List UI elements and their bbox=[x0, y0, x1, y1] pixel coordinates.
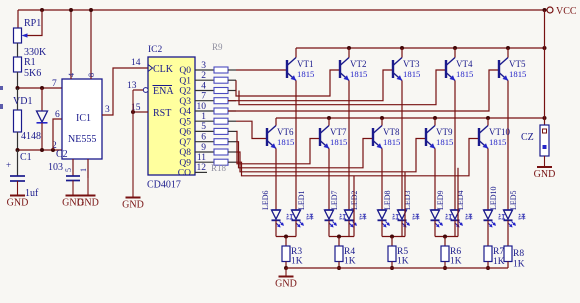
svg-text:CLK: CLK bbox=[153, 64, 174, 75]
wire pin 8 bbox=[90, 10, 92, 79]
svg-text:1815: 1815 bbox=[456, 69, 473, 79]
ground LED bus bbox=[285, 268, 287, 277]
svg-text:VD1: VD1 bbox=[13, 96, 32, 107]
IC U2 CD4017 bbox=[148, 57, 195, 175]
LED LED2 green bbox=[345, 209, 354, 211]
svg-text:LED3: LED3 bbox=[403, 190, 412, 210]
wire collector rail VT1-VT5 bbox=[296, 47, 545, 49]
svg-text:RP1: RP1 bbox=[24, 18, 41, 29]
node A wire to pin 7 bbox=[18, 87, 63, 89]
wire RP1 top connection bbox=[17, 10, 19, 28]
resistor R16 bbox=[214, 139, 228, 145]
svg-text:CZ: CZ bbox=[521, 132, 534, 143]
wire Q0 to VT1 base bbox=[236, 69, 287, 71]
svg-text:GND: GND bbox=[77, 198, 99, 209]
LED LED6 red bbox=[272, 209, 281, 211]
svg-text:ENA: ENA bbox=[153, 86, 174, 97]
svg-text:CD4017: CD4017 bbox=[147, 180, 181, 191]
svg-text:VCC: VCC bbox=[556, 6, 577, 17]
svg-text:7: 7 bbox=[52, 79, 57, 89]
wire LED5 cathode to R8 bbox=[507, 221, 509, 247]
svg-text:GND: GND bbox=[7, 198, 29, 209]
svg-text:CO: CO bbox=[178, 169, 191, 179]
svg-text:IC2: IC2 bbox=[148, 45, 163, 55]
wire Q6 to VT7 base bbox=[236, 131, 320, 163]
svg-text:Q1: Q1 bbox=[179, 76, 191, 86]
wire R5 to ground bus bbox=[391, 262, 393, 269]
svg-text:1815: 1815 bbox=[436, 137, 453, 147]
LED LED3 green bbox=[398, 209, 407, 211]
wire pin 6 bbox=[53, 119, 62, 150]
svg-text:VT4: VT4 bbox=[456, 59, 473, 69]
svg-text:1815: 1815 bbox=[509, 69, 526, 79]
svg-text:1815: 1815 bbox=[297, 69, 314, 79]
svg-text:10: 10 bbox=[197, 102, 207, 112]
svg-text:1815: 1815 bbox=[277, 137, 294, 147]
resistor R14 bbox=[214, 118, 228, 124]
svg-text:VT8: VT8 bbox=[383, 127, 400, 137]
wire pair 4 riser bbox=[457, 168, 459, 237]
wire LED pair 1 cathodes bbox=[275, 221, 277, 237]
transistor VT1 bbox=[286, 60, 288, 78]
svg-text:1K: 1K bbox=[397, 257, 409, 267]
transistor VT10 bbox=[478, 128, 480, 146]
svg-text:Q2: Q2 bbox=[179, 87, 191, 97]
svg-text:R7: R7 bbox=[493, 247, 504, 257]
wire VT4 emitter to LED4 bbox=[454, 81, 456, 211]
svg-text:1K: 1K bbox=[291, 257, 303, 267]
transistor VT9 bbox=[425, 128, 427, 146]
node B wire to pin 2 bbox=[18, 149, 63, 151]
svg-text:R6: R6 bbox=[450, 247, 461, 257]
svg-text:GND: GND bbox=[122, 200, 144, 211]
resistor R6 bbox=[444, 237, 446, 247]
svg-text:LED8: LED8 bbox=[383, 190, 392, 210]
svg-text:R8: R8 bbox=[513, 249, 524, 259]
svg-text:4148: 4148 bbox=[21, 131, 41, 142]
svg-text:R1: R1 bbox=[24, 57, 36, 68]
svg-text:1815: 1815 bbox=[489, 137, 506, 147]
svg-text:5: 5 bbox=[64, 168, 73, 172]
resistor R11 bbox=[214, 88, 228, 94]
wire VT4 collector bbox=[454, 48, 456, 58]
svg-text:9: 9 bbox=[201, 143, 206, 153]
svg-text:Q5: Q5 bbox=[179, 117, 191, 127]
svg-text:R3: R3 bbox=[291, 247, 302, 257]
svg-text:4: 4 bbox=[201, 81, 206, 91]
VCC terminal bbox=[543, 8, 547, 12]
wire VT7 collector bbox=[328, 118, 330, 126]
svg-text:VT1: VT1 bbox=[297, 59, 314, 69]
svg-text:VT2: VT2 bbox=[350, 59, 367, 69]
wire R6 to ground bus bbox=[444, 262, 446, 269]
svg-text:LED10: LED10 bbox=[489, 186, 498, 210]
wire VT3 emitter to LED3 bbox=[401, 81, 403, 211]
wire R2 to node B bbox=[17, 132, 19, 150]
svg-text:1K: 1K bbox=[513, 260, 525, 270]
wire node A to R2 bbox=[17, 88, 19, 110]
resistor R3 bbox=[285, 237, 287, 247]
wire VT10 collector bbox=[487, 118, 489, 126]
svg-text:3: 3 bbox=[105, 105, 110, 115]
wire VCC top rail bbox=[18, 9, 545, 11]
resistor R10 bbox=[214, 77, 228, 83]
svg-text:Q7: Q7 bbox=[179, 138, 191, 148]
svg-text:VT10: VT10 bbox=[489, 127, 510, 137]
wire VT3 collector bbox=[401, 48, 403, 58]
wire Q2 to VT4 base bbox=[239, 70, 446, 105]
svg-text:1K: 1K bbox=[493, 257, 505, 267]
svg-text:Q3: Q3 bbox=[179, 97, 191, 107]
LED LED8 red bbox=[378, 209, 387, 211]
wire VT7 emitter to LED7 bbox=[328, 149, 330, 211]
wire Q1 to VT2 base bbox=[236, 70, 340, 96]
svg-text:Q4: Q4 bbox=[179, 107, 191, 117]
svg-text:Q0: Q0 bbox=[179, 66, 191, 76]
capacitor C2 bbox=[72, 159, 74, 176]
resistor R12 bbox=[214, 98, 228, 104]
LED LED1 green bbox=[292, 209, 301, 211]
svg-text:4: 4 bbox=[67, 73, 76, 77]
wire LED ground bus bbox=[286, 267, 508, 269]
op-amp U1 NE555 bbox=[62, 79, 102, 159]
svg-text:VT9: VT9 bbox=[436, 127, 453, 137]
svg-text:5: 5 bbox=[201, 122, 206, 132]
resistor R1 bbox=[14, 57, 22, 72]
svg-text:2: 2 bbox=[201, 71, 206, 81]
svg-text:1815: 1815 bbox=[330, 137, 347, 147]
wire Q8 to VT9 base bbox=[236, 139, 426, 172]
svg-text:RST: RST bbox=[153, 108, 171, 119]
wire VT1 collector bbox=[295, 48, 297, 58]
svg-text:103: 103 bbox=[48, 162, 63, 173]
transistor VT6 bbox=[266, 128, 268, 146]
LED LED10 red bbox=[484, 209, 493, 211]
svg-text:LED9: LED9 bbox=[436, 190, 445, 210]
resistor R17 bbox=[214, 149, 228, 155]
svg-text:11: 11 bbox=[197, 153, 206, 163]
wire Q5 to VT6 base bbox=[236, 121, 267, 138]
transistor VT2 bbox=[339, 60, 341, 78]
resistor R2 bbox=[14, 110, 22, 132]
wire RP1 to R1 bbox=[17, 43, 19, 57]
wire VT9 collector bbox=[434, 118, 436, 126]
wire VCC drop to CZ bbox=[544, 10, 546, 125]
wire VT5 collector bbox=[507, 48, 509, 58]
svg-text:6: 6 bbox=[55, 110, 60, 120]
resistor R7 bbox=[484, 246, 492, 262]
resistor R5 bbox=[391, 237, 393, 247]
svg-text:1: 1 bbox=[79, 168, 88, 172]
wire VT8 collector bbox=[381, 118, 383, 126]
svg-text:Q9: Q9 bbox=[179, 158, 191, 168]
svg-text:LED5: LED5 bbox=[509, 190, 518, 210]
svg-text:6: 6 bbox=[201, 133, 206, 143]
wire VT2 emitter to LED2 bbox=[348, 81, 350, 211]
wire VT8 emitter to LED8 bbox=[381, 149, 383, 211]
ground C1 bbox=[17, 181, 19, 196]
wire R3 to ground bus bbox=[285, 262, 287, 269]
svg-text:Q6: Q6 bbox=[179, 128, 191, 138]
wire Q7 to VT8 base bbox=[236, 139, 373, 168]
wire VT6 collector bbox=[275, 118, 277, 126]
transistor VT5 bbox=[498, 60, 500, 78]
svg-text:C2: C2 bbox=[56, 149, 68, 160]
capacitor C1 bbox=[17, 150, 19, 176]
wire R4 to ground bus bbox=[338, 262, 340, 269]
svg-text:R4: R4 bbox=[344, 247, 355, 257]
wire pin 13 and 15 to ground bbox=[133, 89, 143, 91]
svg-text:LED6: LED6 bbox=[261, 190, 270, 210]
wire LED pair 3 cathodes bbox=[381, 221, 383, 237]
svg-text:12: 12 bbox=[197, 163, 207, 173]
svg-text:3: 3 bbox=[201, 61, 206, 71]
svg-text:1K: 1K bbox=[450, 257, 462, 267]
svg-text:R18: R18 bbox=[211, 163, 227, 173]
svg-text:R9: R9 bbox=[212, 42, 223, 52]
wire R1 to node A bbox=[17, 72, 19, 88]
wire Q9 to VT10 base bbox=[236, 139, 479, 176]
svg-text:VT6: VT6 bbox=[277, 127, 294, 137]
wire VT9 emitter to LED9 bbox=[434, 149, 436, 211]
svg-text:8: 8 bbox=[87, 73, 96, 77]
svg-text:GND: GND bbox=[275, 279, 297, 290]
wire Q4 to VT5 base bbox=[228, 70, 499, 111]
wire VT1 emitter to LED1 bbox=[295, 81, 297, 211]
wire pin 3 to CLK bbox=[102, 68, 148, 115]
transistor VT8 bbox=[372, 128, 374, 146]
ground C2 bbox=[72, 181, 74, 196]
transistor VT4 bbox=[445, 60, 447, 78]
svg-text:VT7: VT7 bbox=[330, 127, 347, 137]
resistor R4 bbox=[338, 237, 340, 247]
svg-text:C1: C1 bbox=[20, 152, 32, 163]
transistor VT3 bbox=[392, 60, 394, 78]
wire pair 2 riser bbox=[353, 176, 355, 237]
ground pin 1 bbox=[87, 178, 89, 196]
svg-text:R5: R5 bbox=[397, 247, 408, 257]
wire LED pair 2 cathodes bbox=[328, 221, 330, 237]
svg-text:1815: 1815 bbox=[350, 69, 367, 79]
svg-text:7: 7 bbox=[201, 92, 206, 102]
wire VT5 emitter to LED5 bbox=[507, 81, 509, 211]
svg-text:LED7: LED7 bbox=[330, 190, 339, 210]
wire VT10 emitter to LED10 bbox=[487, 149, 489, 211]
LED LED4 green bbox=[451, 209, 460, 211]
wire pair 3 riser bbox=[404, 172, 406, 237]
resistor R15 bbox=[214, 128, 228, 134]
resistor R13 bbox=[214, 108, 228, 114]
wire RP1 wiper bbox=[40, 8, 44, 12]
LED LED7 red bbox=[325, 209, 334, 211]
svg-text:+: + bbox=[6, 160, 11, 170]
wire pin 1 bbox=[87, 159, 89, 178]
LED LED9 red bbox=[431, 209, 440, 211]
svg-text:VT5: VT5 bbox=[509, 59, 526, 69]
ground IC2 enable bbox=[132, 90, 134, 198]
transistor VT7 bbox=[319, 128, 321, 146]
diode VD1 bbox=[41, 88, 43, 111]
resistor R9 bbox=[214, 67, 228, 73]
pin 13 bubble bbox=[143, 88, 148, 93]
svg-text:1815: 1815 bbox=[403, 69, 420, 79]
svg-text:VT3: VT3 bbox=[403, 59, 420, 69]
wire VT6 emitter to LED6 bbox=[275, 149, 277, 211]
svg-text:1K: 1K bbox=[344, 257, 356, 267]
svg-text:LED1: LED1 bbox=[297, 190, 306, 210]
svg-text:1: 1 bbox=[201, 112, 206, 122]
svg-text:5K6: 5K6 bbox=[24, 68, 41, 79]
svg-text:Q8: Q8 bbox=[179, 148, 191, 158]
svg-text:GND: GND bbox=[534, 169, 556, 180]
resistor R18 bbox=[214, 159, 228, 165]
wire LED pair 4 cathodes bbox=[434, 221, 436, 237]
wire collector rail VT6-VT10 bbox=[276, 117, 545, 119]
wire pin 4 bbox=[70, 10, 72, 79]
wire LED10 cathode to R7 bbox=[487, 221, 489, 247]
svg-text:NE555: NE555 bbox=[68, 134, 96, 145]
wire VT2 collector bbox=[348, 48, 350, 58]
svg-text:IC1: IC1 bbox=[76, 113, 91, 124]
svg-text:LED4: LED4 bbox=[456, 190, 465, 210]
wire Q3 to VT3 base bbox=[228, 70, 393, 101]
LED LED5 green bbox=[504, 209, 513, 211]
connector CZ bbox=[540, 125, 549, 156]
svg-text:14: 14 bbox=[131, 58, 141, 68]
ground CZ bbox=[544, 156, 546, 167]
resistor R8 bbox=[504, 246, 512, 262]
potentiometer RP1 bbox=[14, 28, 22, 43]
svg-text:1815: 1815 bbox=[383, 137, 400, 147]
